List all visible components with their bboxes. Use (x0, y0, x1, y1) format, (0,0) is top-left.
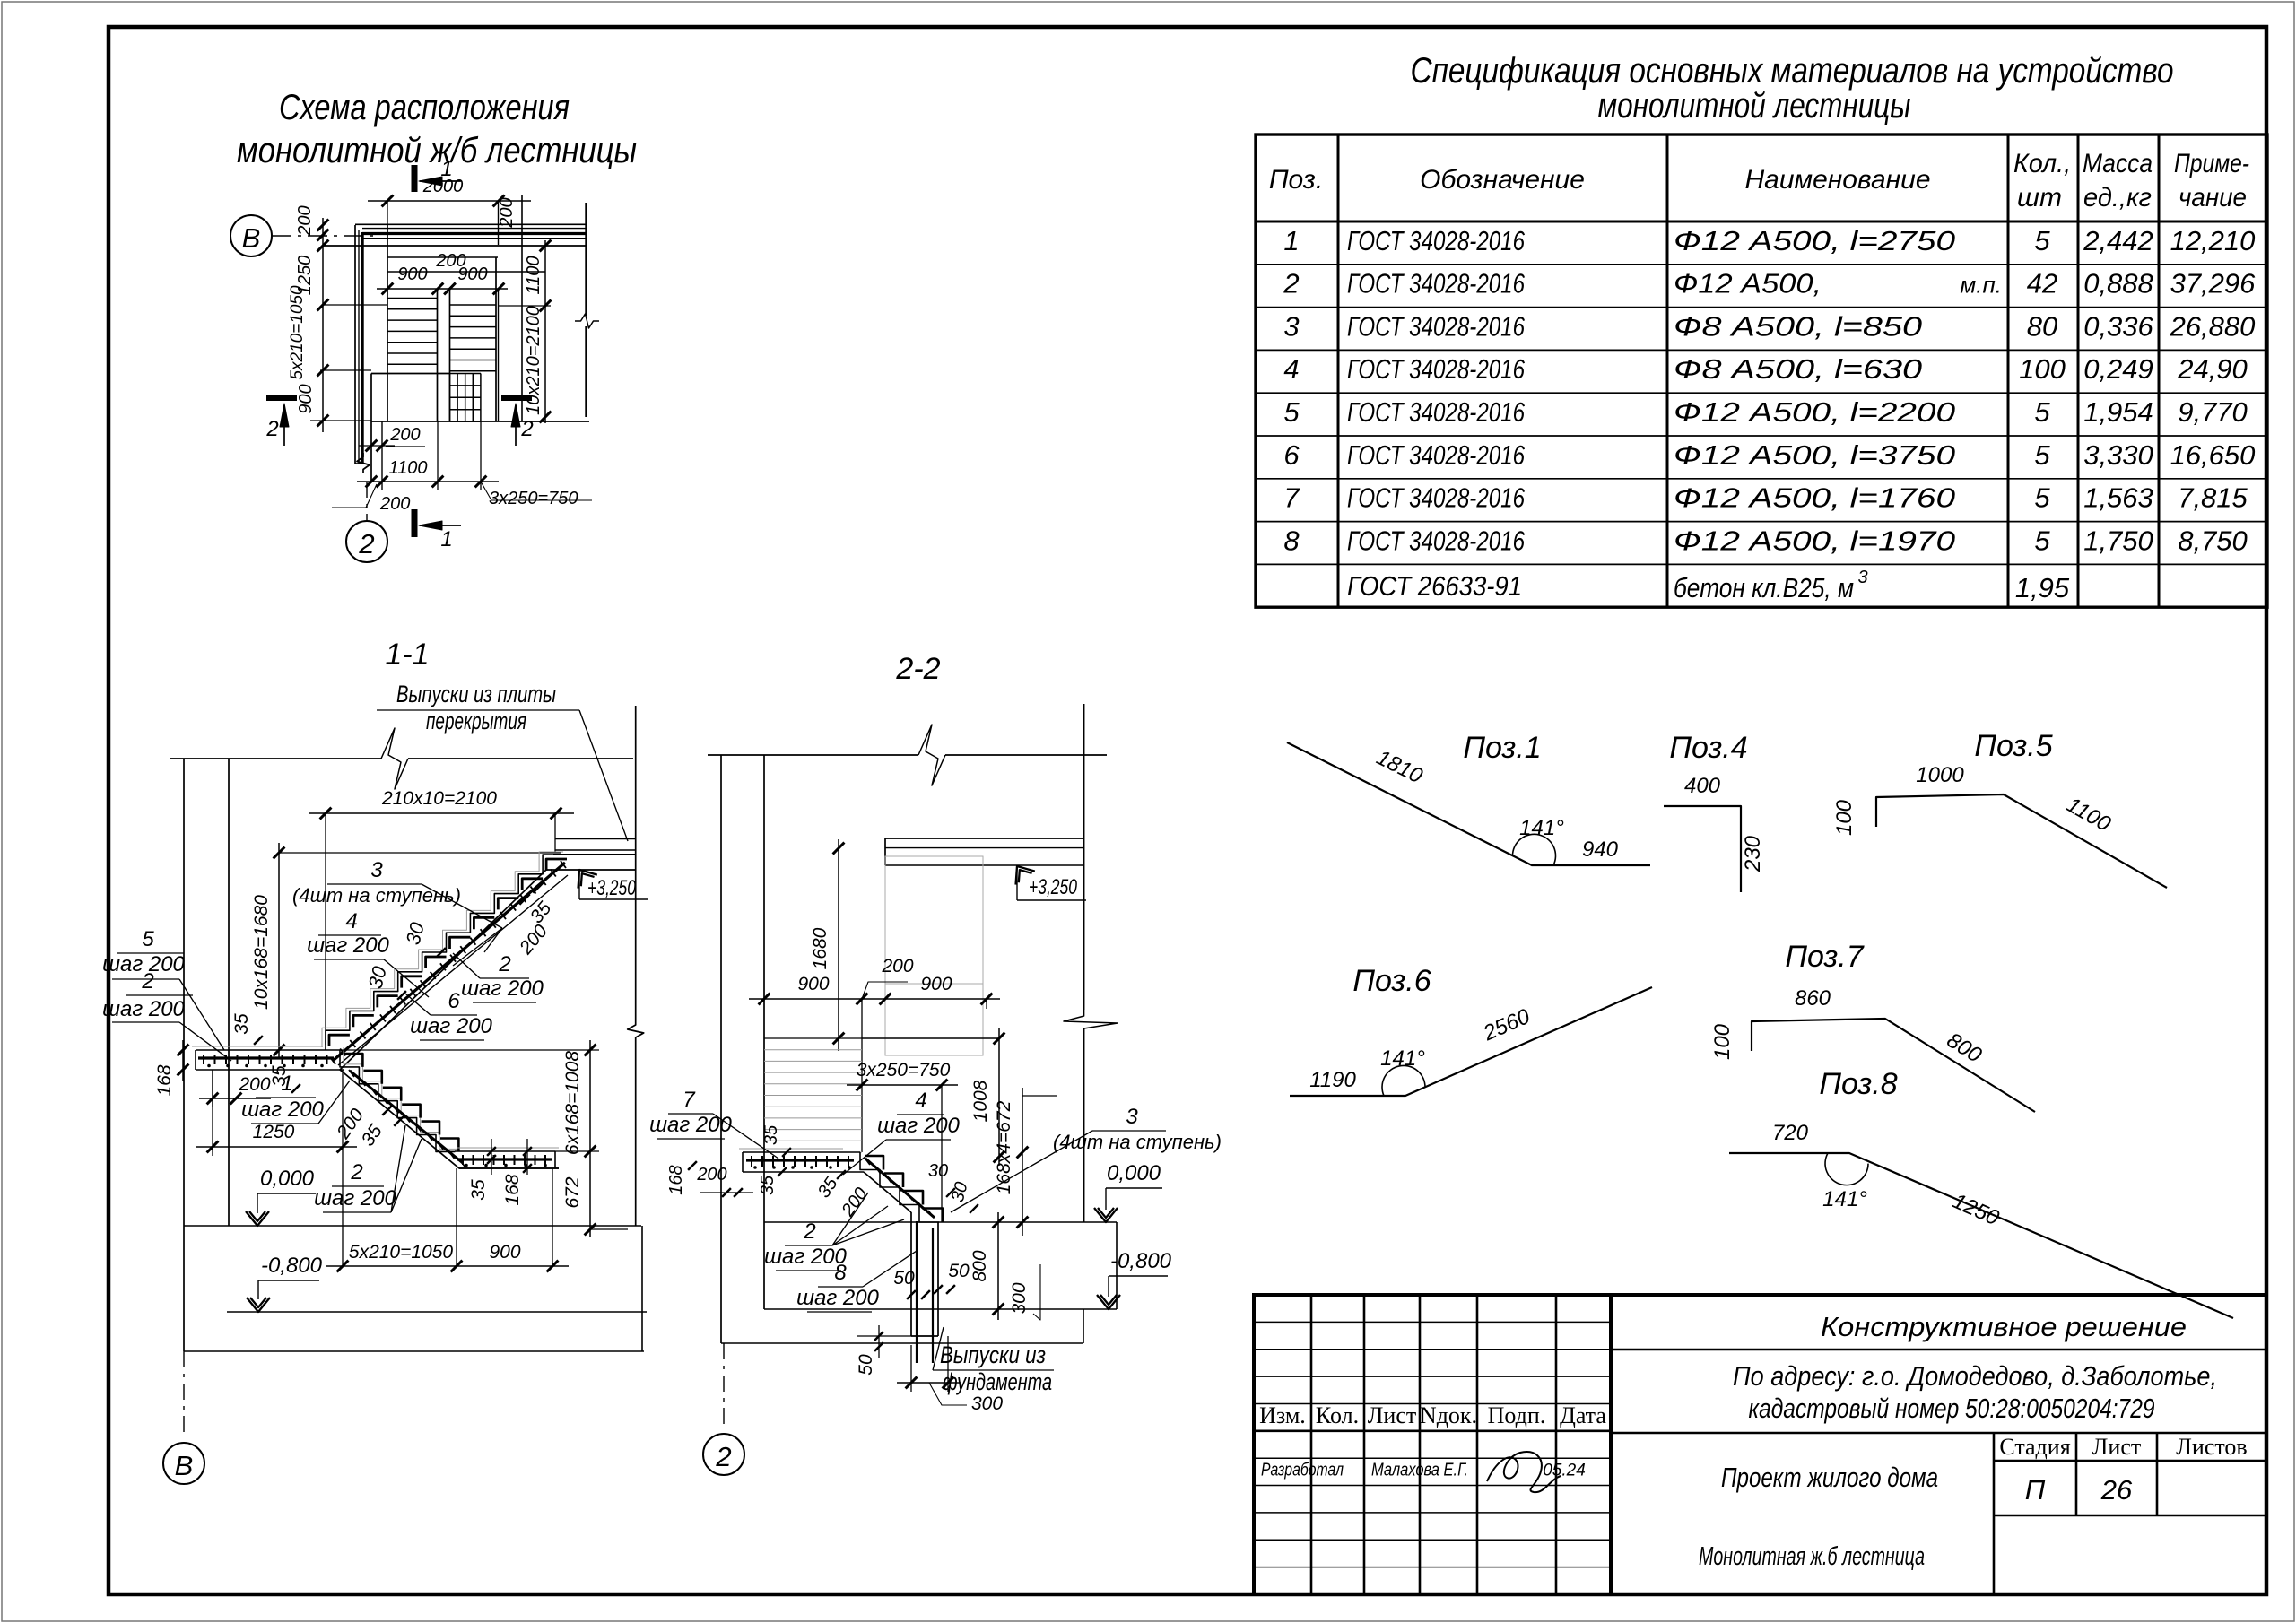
svg-text:100: 100 (1832, 799, 1857, 836)
svg-text:(4шт на ступень): (4шт на ступень) (1053, 1131, 1222, 1153)
plan dim 900 900 (377, 265, 508, 294)
svg-text:2: 2 (520, 417, 533, 441)
section 2-2 labels 30 (928, 1161, 978, 1213)
specification table rows (1283, 225, 2256, 603)
svg-text:кадастровый номер 50:28:005020: кадастровый номер 50:28:0050204:729 (1749, 1393, 2155, 1424)
svg-text:37,296: 37,296 (2170, 268, 2257, 299)
pos 1 bar (1287, 731, 1650, 865)
section 2-2 axis 2 circle (703, 1343, 744, 1475)
svg-text:1: 1 (440, 527, 452, 551)
svg-text:0,336: 0,336 (2083, 310, 2153, 342)
svg-text:42: 42 (2027, 268, 2057, 299)
section 1-1 upper flight soffit (340, 870, 546, 1070)
section 2-2 vypuski iz fundamenta (933, 1327, 1054, 1395)
svg-text:5: 5 (2034, 525, 2050, 556)
svg-text:80: 80 (2027, 310, 2057, 342)
svg-text:5: 5 (2034, 439, 2050, 471)
section 1-1 label 35 left flight (231, 1013, 300, 1093)
svg-text:6: 6 (448, 989, 460, 1013)
svg-text:3: 3 (1283, 310, 1299, 342)
svg-text:(4шт на ступень): (4шт на ступень) (292, 884, 461, 907)
svg-text:6х168=1008: 6х168=1008 (562, 1051, 583, 1156)
svg-text:Ф12 А500,: Ф12 А500, (1674, 268, 1822, 299)
section 1-1 labels 35 168 bottom (468, 1139, 532, 1206)
svg-text:900: 900 (797, 974, 829, 994)
section 1-1 lower flight step rebars (344, 1054, 458, 1151)
section 1-1 bottom line (184, 1350, 644, 1352)
svg-text:Ф8 А500, l=850: Ф8 А500, l=850 (1674, 310, 1922, 342)
svg-text:Кол.,: Кол., (2013, 149, 2071, 178)
section 2-2 labels 35 (758, 1124, 872, 1220)
svg-text:шаг 200: шаг 200 (649, 1113, 732, 1137)
svg-text:50: 50 (893, 1268, 915, 1289)
svg-text:2: 2 (265, 417, 278, 441)
section 1-1 dim 168 left (154, 1040, 188, 1097)
specification table header (1269, 149, 2249, 213)
plan dim 2000 top (368, 177, 531, 229)
pos 6 bar (1290, 964, 1652, 1096)
svg-text:168х4=672: 168х4=672 (994, 1100, 1014, 1194)
plan section mark 2 right (501, 395, 534, 446)
svg-text:200: 200 (238, 1074, 270, 1095)
section 2-2 rebar label 4 (843, 1089, 961, 1175)
section 1-1 mid landing slab (192, 1046, 344, 1070)
svg-text:Лист: Лист (1368, 1402, 1416, 1428)
svg-text:шт: шт (2017, 183, 2062, 213)
section 2-2 dim 1008 (970, 1028, 1004, 1166)
plan axis B dashed line (272, 235, 375, 237)
section 2-2 rebar label 8 (796, 1251, 917, 1312)
svg-text:Подп.: Подп. (1488, 1402, 1546, 1428)
section 1-1 foundation level line -0.800 (227, 1311, 647, 1313)
svg-text:2: 2 (1283, 268, 1299, 299)
section 2-2 dim 168x4=672 (994, 1088, 1057, 1236)
svg-text:3: 3 (370, 858, 383, 882)
section 1-1 right wall (628, 706, 644, 1226)
svg-text:В: В (175, 1450, 194, 1481)
section 1-1 floor level line 0.000 (184, 1225, 641, 1227)
svg-text:Обозначение: Обозначение (1420, 165, 1585, 195)
plan left wall thick face (361, 232, 363, 464)
svg-text:Ф8 А500, l=630: Ф8 А500, l=630 (1674, 353, 1922, 385)
svg-text:200: 200 (881, 956, 913, 976)
section 2-2 dim 300 bottom (897, 1336, 1003, 1414)
specification table grid (1256, 135, 2267, 607)
svg-text:Nдок.: Nдок. (1420, 1402, 1477, 1428)
svg-text:1-1: 1-1 (385, 638, 429, 672)
section 1-1 lower flight steps (340, 1050, 455, 1151)
svg-text:1250: 1250 (253, 1122, 295, 1142)
svg-text:Поз.1: Поз.1 (1463, 731, 1541, 765)
section 1-1 upper flight finish outline (322, 852, 563, 1047)
svg-text:ГОСТ 34028-2016: ГОСТ 34028-2016 (1347, 525, 1526, 556)
svg-text:8,750: 8,750 (2178, 525, 2248, 556)
section 2-2 dim 300 right (994, 1264, 1040, 1320)
svg-text:1000: 1000 (1916, 763, 1964, 787)
section 1-1 dim 210x10=2100 (309, 788, 574, 1045)
svg-text:5: 5 (2034, 225, 2050, 256)
section 2-2 dim 168 200 left (666, 1161, 753, 1197)
svg-text:По адресу: г.о. Домодедово, д.: По адресу: г.о. Домодедово, д.Заболотье, (1733, 1360, 2217, 1392)
svg-text:5х210=1050: 5х210=1050 (349, 1242, 454, 1263)
svg-text:1,95: 1,95 (2015, 572, 2070, 603)
svg-text:168: 168 (502, 1174, 523, 1205)
section 1-1 level mark 0.000 (246, 1167, 316, 1226)
section 2-2 elevation mark +3.250 (1007, 860, 1086, 900)
section 1-1 rebar label 3 4sht (292, 858, 502, 966)
svg-text:0,000: 0,000 (260, 1167, 315, 1191)
svg-text:+3,250: +3,250 (1029, 875, 1077, 899)
svg-text:Ф12 А500, l=1970: Ф12 А500, l=1970 (1674, 525, 1955, 556)
svg-text:Поз.7: Поз.7 (1785, 940, 1864, 974)
svg-text:ГОСТ 34028-2016: ГОСТ 34028-2016 (1347, 353, 1526, 385)
plan hatched stair-below grid (450, 374, 482, 422)
section 1-1 upper flight rebar ticks (330, 861, 566, 1064)
section 1-1 lower flight rebar (349, 1070, 465, 1167)
svg-text:940: 940 (1582, 838, 1619, 862)
svg-text:Лист: Лист (2092, 1434, 2141, 1460)
svg-text:5: 5 (2034, 396, 2050, 428)
svg-text:2,442: 2,442 (2083, 225, 2153, 256)
svg-text:В: В (242, 222, 261, 254)
svg-text:-0,800: -0,800 (1110, 1249, 1172, 1273)
section 1-1 dim 5x210 900 (326, 1168, 569, 1271)
svg-text:4: 4 (915, 1089, 926, 1113)
svg-text:Поз.: Поз. (1269, 165, 1323, 195)
plan top section mark 1 (412, 157, 462, 192)
svg-text:7: 7 (683, 1088, 696, 1112)
section 1-1 lower flight finish outline (344, 1047, 458, 1149)
svg-text:720: 720 (1772, 1121, 1809, 1145)
plan left wall outer face (354, 225, 356, 464)
plan flight divider (437, 289, 439, 421)
svg-text:ГОСТ 34028-2016: ГОСТ 34028-2016 (1347, 439, 1526, 471)
section 1-1 axis B circle bottom (163, 1351, 204, 1484)
svg-text:26,880: 26,880 (2170, 310, 2256, 342)
svg-text:168: 168 (154, 1064, 175, 1096)
svg-text:168: 168 (666, 1165, 686, 1194)
svg-text:+3,250: +3,250 (587, 876, 636, 900)
svg-text:05.24: 05.24 (1543, 1462, 1586, 1480)
svg-text:2-2: 2-2 (895, 652, 940, 686)
svg-text:фундамента: фундамента (943, 1368, 1052, 1395)
pos 7 bar (1710, 940, 2035, 1112)
svg-text:шаг 200: шаг 200 (461, 976, 544, 1001)
title block address cell (1611, 1360, 2266, 1433)
svg-text:200: 200 (389, 425, 420, 445)
plan right flight treads (450, 305, 497, 371)
svg-text:Дата: Дата (1560, 1402, 1606, 1428)
svg-text:ед.,кг: ед.,кг (2083, 183, 2152, 213)
plan left dim chain (288, 205, 387, 432)
svg-text:210х10=2100: 210х10=2100 (381, 788, 497, 809)
section 1-1 dim 10x168=1680 (251, 843, 561, 1058)
plan upper flight treads (387, 299, 437, 365)
title block project name cell (1611, 1311, 2266, 1350)
plan lower flight stringer (495, 257, 497, 421)
svg-text:Приме-: Приме- (2174, 149, 2249, 178)
svg-text:шаг 200: шаг 200 (314, 1186, 396, 1211)
title block header row labels (1259, 1402, 1606, 1428)
section 1-1 upper flight steps (326, 855, 567, 1050)
section 2-2 left wall (721, 755, 764, 1343)
section 2-2 steps rebar (865, 1156, 943, 1222)
svg-text:Ф12 А500, l=1760: Ф12 А500, l=1760 (1674, 482, 1955, 514)
svg-text:4: 4 (345, 909, 357, 933)
plan landing rectangle (371, 374, 589, 422)
svg-text:50: 50 (856, 1354, 876, 1376)
section 2-2 dim 900 200 900 (749, 956, 1000, 1152)
section 1-1 label 30 left (364, 963, 406, 1000)
svg-text:900: 900 (920, 974, 952, 994)
svg-text:Наименование: Наименование (1744, 165, 1930, 195)
svg-text:200: 200 (295, 205, 315, 236)
svg-text:800: 800 (970, 1250, 990, 1281)
svg-text:шаг 200: шаг 200 (241, 1098, 324, 1122)
svg-text:2: 2 (141, 969, 153, 994)
svg-text:141°: 141° (1380, 1046, 1425, 1071)
section 1-1 bottom landing slab (455, 1148, 559, 1168)
svg-text:Выпуски из плиты: Выпуски из плиты (396, 681, 556, 707)
svg-text:Ф12 А500, l=2200: Ф12 А500, l=2200 (1674, 396, 1955, 428)
svg-text:Стадия: Стадия (1999, 1434, 2070, 1460)
section 2-2 level mark -0.800 (1097, 1249, 1172, 1309)
svg-text:монолитной ж/б лестницы: монолитной ж/б лестницы (237, 131, 637, 170)
svg-text:ГОСТ 34028-2016: ГОСТ 34028-2016 (1347, 482, 1526, 514)
section 2-2 foundation top -0.800 (764, 1308, 1117, 1310)
svg-text:0,000: 0,000 (1107, 1161, 1161, 1185)
section 1-1 labels 200 35 lower mid (333, 1105, 404, 1150)
section 2-2 dims 50 (856, 1261, 970, 1376)
section 1-1 rebar label 5 (102, 927, 224, 1050)
svg-text:100: 100 (1710, 1023, 1735, 1060)
section 1-1 dim 1250 (196, 1070, 357, 1266)
svg-text:3х250=750: 3х250=750 (489, 489, 578, 508)
svg-text:30: 30 (928, 1161, 948, 1181)
section 1-1 label 30 right (402, 919, 446, 957)
svg-text:монолитной лестницы: монолитной лестницы (1598, 86, 1911, 126)
section 1-1 upper landing slab (546, 839, 636, 871)
plan dim 200 label mid (435, 251, 465, 271)
section 2-2 floor slab +3.250 (885, 838, 1083, 865)
section 1-1 dim chain 6x168 and 672 (340, 1040, 628, 1237)
svg-text:шаг 200: шаг 200 (410, 1014, 492, 1038)
svg-text:3,330: 3,330 (2083, 439, 2153, 471)
section 2-2 right wall (1064, 704, 1118, 1222)
svg-text:1680: 1680 (810, 927, 831, 969)
svg-text:1,954: 1,954 (2083, 396, 2153, 428)
section 1-1 leader note vypuski iz plity (377, 681, 628, 841)
svg-text:1190: 1190 (1309, 1068, 1356, 1092)
svg-text:П: П (2025, 1474, 2046, 1506)
plan top wall thick face (362, 232, 587, 235)
section 2-2 bottom right vertical (1083, 1309, 1084, 1343)
plan bottom dim 200 (359, 421, 425, 490)
svg-text:200: 200 (497, 197, 517, 228)
svg-text:шаг 200: шаг 200 (877, 1114, 960, 1138)
svg-text:Малахова Е.Г.: Малахова Е.Г. (1371, 1461, 1468, 1480)
svg-text:Поз.5: Поз.5 (1974, 729, 2052, 763)
plan bottom dim 1100 3x250 (332, 421, 592, 514)
svg-text:900: 900 (457, 265, 487, 284)
section 1-1 upper flight step rebars (329, 859, 567, 1046)
section 1-1 elevation mark +3.250 (570, 864, 648, 900)
svg-text:16,650: 16,650 (2170, 439, 2256, 471)
svg-text:Схема расположения: Схема расположения (279, 88, 570, 127)
svg-text:35: 35 (761, 1124, 781, 1145)
svg-text:0,888: 0,888 (2083, 268, 2153, 299)
plan bottom section mark 1 (412, 509, 462, 551)
svg-text:перекрытия: перекрытия (426, 707, 526, 734)
svg-text:чание: чание (2179, 183, 2247, 213)
svg-text:24,90: 24,90 (2177, 353, 2248, 385)
section 1-1 top slab line with break (170, 728, 633, 789)
section 2-2 projected flight treads (764, 1038, 999, 1152)
svg-text:Масса: Масса (2083, 149, 2152, 178)
plan left wall inner face (387, 225, 388, 421)
svg-text:35: 35 (231, 1013, 252, 1035)
svg-text:Поз.8: Поз.8 (1819, 1067, 1897, 1101)
svg-text:200: 200 (379, 494, 410, 514)
svg-text:шаг 200: шаг 200 (796, 1286, 879, 1310)
svg-text:Монолитная ж.б лестница: Монолитная ж.б лестница (1699, 1542, 1925, 1571)
svg-text:2: 2 (350, 1160, 362, 1185)
plan top wall outer face (355, 223, 587, 225)
svg-text:Выпуски из: Выпуски из (940, 1341, 1046, 1368)
section 1-1 rebar label 2 mid (453, 952, 544, 1002)
svg-text:0,249: 0,249 (2083, 353, 2153, 385)
svg-text:860: 860 (1795, 986, 1831, 1011)
svg-text:1: 1 (1283, 225, 1299, 256)
svg-text:5х210=1050: 5х210=1050 (288, 285, 307, 380)
section 1-1 rebar label 6 (405, 989, 493, 1040)
svg-text:3х250=750: 3х250=750 (857, 1060, 951, 1081)
svg-text:141°: 141° (1519, 816, 1564, 840)
svg-text:Листов: Листов (2176, 1434, 2247, 1460)
plan top wall inner lines (362, 228, 587, 230)
svg-text:Спецификация основных материал: Спецификация основных материалов на устр… (1411, 51, 2174, 91)
svg-text:ГОСТ 34028-2016: ГОСТ 34028-2016 (1347, 225, 1526, 256)
svg-text:1100: 1100 (388, 458, 427, 478)
svg-text:3: 3 (1126, 1105, 1138, 1129)
svg-text:35: 35 (468, 1179, 489, 1201)
pos 8 bar (1729, 1067, 2233, 1318)
svg-text:9,770: 9,770 (2178, 396, 2248, 428)
svg-text:35: 35 (269, 1065, 290, 1087)
plan right dim chain (499, 240, 551, 423)
svg-text:Поз.6: Поз.6 (1352, 964, 1431, 998)
svg-text:900: 900 (296, 384, 316, 413)
section 2-2 bottom line (721, 1342, 1083, 1344)
svg-text:200: 200 (696, 1165, 726, 1185)
title block razrabotal row (1261, 1452, 1586, 1492)
svg-text:35: 35 (758, 1175, 778, 1195)
svg-text:ГОСТ 26633-91: ГОСТ 26633-91 (1347, 570, 1522, 602)
title block stage sheet cells (1994, 1433, 2266, 1594)
svg-text:бетон кл.В25, м: бетон кл.В25, м (1674, 572, 1854, 603)
plan bottom wall edge below landing (355, 421, 371, 482)
svg-text:7,815: 7,815 (2178, 482, 2248, 514)
section 1-1 upper flight main rebar (333, 863, 568, 1065)
svg-text:6: 6 (1283, 439, 1300, 471)
svg-text:2: 2 (498, 952, 510, 976)
svg-text:8: 8 (834, 1261, 847, 1285)
svg-text:5: 5 (142, 927, 154, 951)
plan grid axis B circle (230, 215, 272, 256)
section 2-2 top slab with break (708, 725, 1107, 785)
svg-text:Ф12 А500, l=2750: Ф12 А500, l=2750 (1674, 225, 1955, 256)
svg-text:Ф12 А500, l=3750: Ф12 А500, l=3750 (1674, 439, 1955, 471)
svg-text:м.п.: м.п. (1960, 272, 2002, 299)
svg-text:400: 400 (1684, 774, 1721, 798)
svg-text:Проект жилого дома: Проект жилого дома (1721, 1462, 1938, 1493)
svg-text:300: 300 (971, 1393, 1003, 1414)
svg-text:ГОСТ 34028-2016: ГОСТ 34028-2016 (1347, 310, 1526, 342)
section 2-2 rebar label 7 (649, 1088, 778, 1159)
svg-text:26: 26 (2100, 1474, 2133, 1506)
svg-text:8: 8 (1283, 525, 1300, 556)
svg-text:230: 230 (1741, 835, 1765, 872)
svg-text:900: 900 (489, 1242, 520, 1263)
svg-text:3: 3 (1857, 568, 1867, 587)
svg-text:Конструктивное решение: Конструктивное решение (1821, 1311, 2187, 1342)
svg-text:шаг 200: шаг 200 (102, 997, 185, 1021)
svg-text:-0,800: -0,800 (261, 1254, 323, 1278)
svg-text:4: 4 (1283, 353, 1299, 385)
svg-text:10х168=1680: 10х168=1680 (251, 895, 272, 1010)
svg-text:Изм.: Изм. (1259, 1402, 1306, 1428)
section 1-1 rebar label 2 left (102, 969, 231, 1061)
section 2-2 dim 800 (970, 1212, 1004, 1320)
svg-text:50: 50 (948, 1261, 970, 1281)
svg-text:ГОСТ 34028-2016: ГОСТ 34028-2016 (1347, 396, 1526, 428)
section 1-1 right vertical of foundation (641, 1226, 643, 1351)
svg-text:5: 5 (1283, 396, 1300, 428)
svg-text:1,563: 1,563 (2083, 482, 2153, 514)
section 2-2 rebar label 3 4sht (951, 1105, 1222, 1212)
section 2-2 rebar label 2 (764, 1193, 904, 1271)
section 2-2 dim 1680 (810, 839, 844, 1051)
section 2-2 mid landing slab cut (739, 1149, 864, 1172)
section 1-1 rebar label 2 bottom (314, 1125, 422, 1212)
section 2-2 right foundation vertical (1116, 1222, 1118, 1309)
svg-text:Кол.: Кол. (1316, 1402, 1359, 1428)
section 1-1 lower flight soffit (340, 1070, 559, 1168)
svg-text:672: 672 (562, 1176, 583, 1208)
svg-text:2: 2 (358, 528, 374, 560)
svg-text:1008: 1008 (970, 1080, 991, 1122)
section 2-2 dim 3x250=750 (847, 1060, 958, 1222)
svg-text:300: 300 (1009, 1282, 1030, 1314)
section 2-2 foundation leg (911, 1212, 938, 1363)
svg-text:Поз.4: Поз.4 (1669, 731, 1747, 765)
svg-text:Разработал: Разработал (1261, 1461, 1344, 1480)
pos 5 bar (1832, 729, 2167, 888)
svg-text:12,210: 12,210 (2170, 225, 2256, 256)
section 2-2 wall above projection (885, 856, 983, 1055)
svg-text:141°: 141° (1822, 1187, 1867, 1211)
section 1-1 rebar label 4 (307, 909, 429, 997)
svg-text:ГОСТ 34028-2016: ГОСТ 34028-2016 (1347, 268, 1526, 299)
svg-text:5: 5 (2034, 482, 2050, 514)
svg-text:100: 100 (2019, 353, 2066, 385)
pos 4 bar (1664, 731, 1765, 892)
plan right wall outer face with break (585, 203, 587, 316)
section 2-2 floor line 0.000 (764, 1221, 1117, 1223)
svg-text:1: 1 (440, 157, 452, 181)
svg-text:900: 900 (397, 265, 427, 284)
section 2-2 level mark 0.000 (1094, 1161, 1162, 1222)
